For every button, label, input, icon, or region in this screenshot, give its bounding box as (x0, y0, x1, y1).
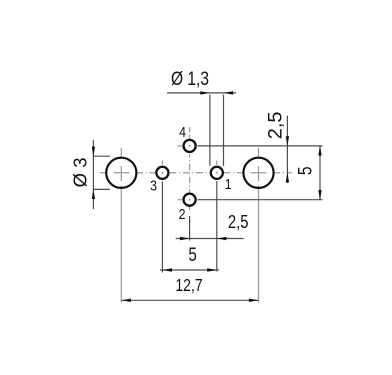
arrow 2,5 bottom left (180, 237, 190, 240)
extension line hole 2 level (198, 199, 323, 201)
crosshair tick hole 3 (161, 161, 163, 165)
contact hole 2 (184, 194, 196, 206)
arrow diameter 1,3 right (224, 91, 234, 94)
arrow 2,5 right upper (286, 136, 289, 146)
crosshair tick hole 1 (216, 161, 218, 165)
contact hole 3 (156, 167, 168, 179)
dimension line 2,5 top right (286, 116, 288, 184)
centerline vertical through left mounting circle extending to 12.7 dimension (120, 148, 122, 303)
svg-text:Ø 1,3: Ø 1,3 (171, 67, 209, 89)
arrow 2,5 bottom right (217, 237, 227, 240)
extension line top tangent left circle (93, 155, 110, 157)
extension line below hole 1 (216, 181, 218, 272)
extension line left tangent hole 1 (209, 95, 211, 166)
centerline vertical through right mounting circle extending to 12.7 dimension (258, 148, 260, 303)
extension line hole 4 level (198, 145, 323, 147)
svg-text:3: 3 (150, 178, 157, 194)
center dot hole 2 (189, 199, 191, 201)
svg-text:5: 5 (188, 243, 196, 265)
center dot hole 3 (161, 172, 163, 174)
svg-text:2,5: 2,5 (228, 212, 249, 233)
arrow 5 bottom right (207, 268, 217, 271)
extension line below hole 2 (189, 216, 191, 241)
arrow diameter 1,3 left (200, 91, 210, 94)
dimension line 5 bottom (160, 269, 219, 271)
mounting hole right (diameter 3) (243, 158, 273, 188)
svg-text:5: 5 (294, 166, 316, 175)
dimension line 5 right (319, 146, 321, 200)
extension line below hole 3 (161, 182, 163, 273)
crosshair ticks hole 4 (178, 145, 202, 147)
arrow 5 bottom left (162, 268, 172, 271)
contact hole 4 (184, 140, 196, 152)
arrow diameter 3 upper (92, 147, 95, 157)
svg-text:2,5: 2,5 (265, 111, 286, 139)
svg-text:2: 2 (179, 206, 186, 222)
center dot hole 1 (216, 172, 218, 174)
extension line bottom tangent left circle (93, 188, 110, 190)
mounting hole left (diameter 3) (106, 158, 136, 188)
centerline horizontal through holes 3,1 and mounting circles (100, 172, 292, 174)
svg-text:1: 1 (225, 176, 232, 192)
dimension line diameter 3 left (92, 140, 94, 209)
svg-text:4: 4 (179, 124, 186, 140)
contact hole 1 (211, 167, 223, 179)
arrow 5 right lower (318, 190, 321, 200)
arrow diameter 3 lower (92, 189, 95, 199)
arrow 12,7 right (249, 299, 259, 302)
svg-text:Ø 3: Ø 3 (70, 157, 91, 187)
arrow 2,5 right lower (286, 173, 289, 183)
arrow 12,7 left (121, 299, 131, 302)
arrow 5 right upper (318, 146, 321, 156)
crosshair ticks hole 2 (178, 199, 202, 201)
center dot hole 4 (189, 145, 191, 147)
centerline vertical through holes 4,2 (189, 127, 191, 210)
leader line dimension diameter 1,3 (167, 92, 236, 94)
svg-text:12,7: 12,7 (175, 277, 202, 296)
dimension line 12,7 (121, 299, 258, 301)
dimension line 2,5 bottom (176, 238, 244, 240)
extension line right tangent hole 1 (223, 95, 225, 166)
